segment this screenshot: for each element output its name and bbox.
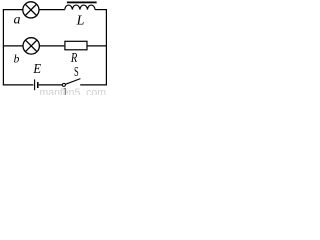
- wire middle row middle: [39, 45, 64, 47]
- inductor L core bar: [67, 2, 97, 4]
- wire top row middle: [39, 9, 65, 11]
- svg-text:L: L: [76, 14, 85, 29]
- wire middle row left: [3, 45, 23, 47]
- wire bottom row middle: [39, 84, 63, 86]
- battery E long plate: [34, 79, 36, 90]
- lamp b: [23, 38, 39, 54]
- wire right vertical: [105, 10, 107, 85]
- svg-text:S: S: [74, 65, 79, 80]
- battery E short thick plate: [37, 82, 39, 88]
- wire middle row right: [87, 45, 107, 47]
- wire left vertical: [2, 10, 4, 85]
- svg-text:b: b: [14, 54, 20, 66]
- svg-text:R: R: [70, 49, 78, 65]
- svg-text:E: E: [32, 60, 41, 76]
- inductor L coil: [65, 5, 95, 10]
- wire bottom row right: [80, 84, 107, 86]
- switch S pivot: [62, 83, 65, 86]
- lamp a: [23, 2, 39, 18]
- svg-text:manfen5. com: manfen5. com: [40, 87, 107, 95]
- switch S blade: [65, 79, 80, 85]
- resistor R: [65, 41, 87, 50]
- wire top row right: [95, 9, 107, 11]
- wire bottom row left: [3, 84, 34, 86]
- svg-text:a: a: [14, 12, 21, 27]
- watermark dark stem: [64, 88, 66, 95]
- wire top row left: [3, 9, 23, 11]
